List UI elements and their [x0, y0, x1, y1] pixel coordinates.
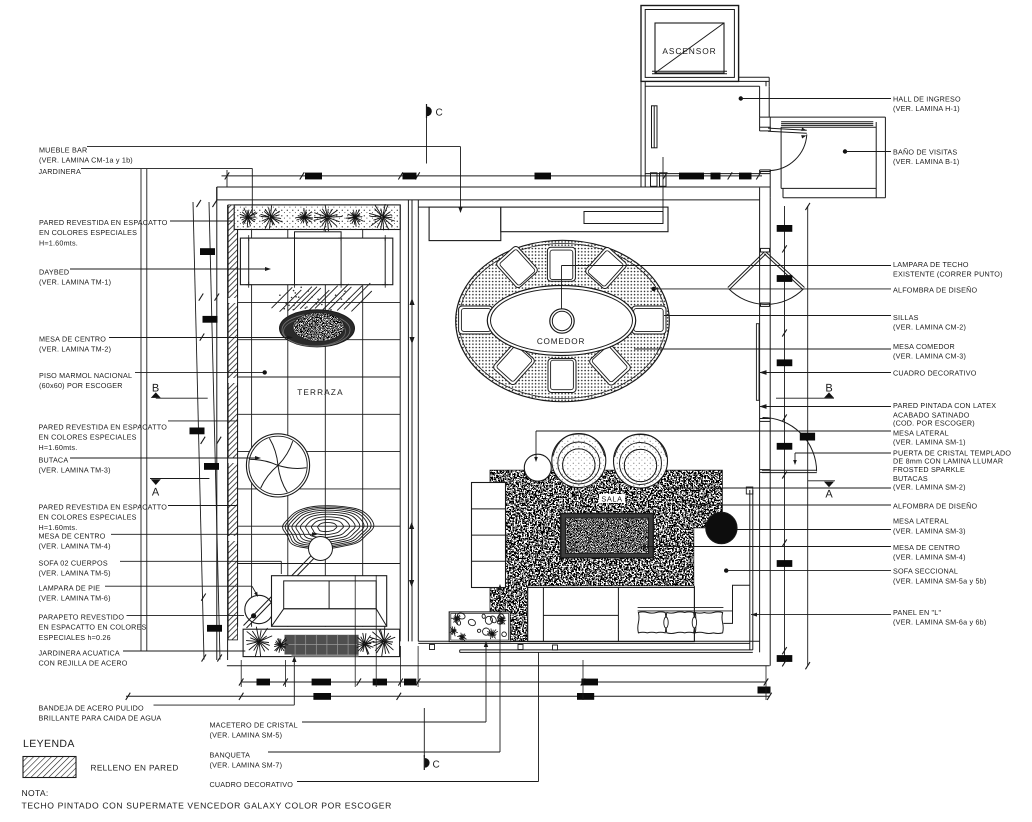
inner top wall line	[217, 199, 760, 201]
leader SILLAS	[664, 315, 891, 317]
lampara de techo point (center circle)	[550, 309, 574, 333]
svg-text:SILLAS: SILLAS	[893, 313, 919, 322]
svg-text:CUADRO DECORATIVO: CUADRO DECORATIVO	[210, 780, 294, 789]
leader PARED REVESTIDA 1	[170, 220, 233, 222]
svg-text:LAMPARA DE PIE: LAMPARA DE PIE	[39, 584, 101, 593]
svg-text:SOFA 02 CUERPOS: SOFA 02 CUERPOS	[39, 559, 108, 568]
wall corner joint top-left	[216, 187, 218, 200]
lampara de pie TM-6	[244, 537, 333, 629]
svg-text:DAYBED: DAYBED	[39, 268, 69, 277]
left dim chain value blocks	[190, 248, 223, 632]
right dim chain1 value blocks	[777, 225, 793, 662]
svg-text:(VER. LAMINA TM-5): (VER. LAMINA TM-5)	[39, 569, 111, 578]
leader BANQUETA	[268, 751, 500, 753]
svg-text:PARAPETO REVESTIDO: PARAPETO REVESTIDO	[39, 613, 125, 622]
shaft left wall lower	[640, 81, 642, 187]
banqueta SM-7	[472, 483, 506, 588]
outer boundary bottom line	[227, 665, 770, 667]
bottom dim corner block right	[758, 687, 771, 694]
bano outer top wall	[760, 116, 886, 118]
svg-text:LEYENDA: LEYENDA	[23, 738, 75, 750]
leader PARAPETO	[127, 614, 245, 616]
svg-text:(VER. LAMINA TM-6): (VER. LAMINA TM-6)	[39, 594, 111, 603]
bottom dim line1 value blocks	[257, 679, 599, 686]
outer boundary left line	[216, 187, 218, 660]
svg-text:(VER. LAMINA TM-4): (VER. LAMINA TM-4)	[39, 542, 111, 551]
sofa 02 cuerpos TM-5	[272, 576, 387, 627]
svg-text:(VER. LAMINA CM-1a y 1b): (VER. LAMINA CM-1a y 1b)	[39, 156, 133, 165]
section marker C bottom	[423, 755, 425, 770]
svg-text:(VER. LAMINA CM-3): (VER. LAMINA CM-3)	[893, 352, 966, 361]
mueble bar top edge line	[418, 206, 429, 208]
svg-text:MESA DE CENTRO: MESA DE CENTRO	[39, 335, 106, 344]
svg-text:COMEDOR: COMEDOR	[537, 337, 585, 346]
svg-text:RELLENO EN PARED: RELLENO EN PARED	[91, 764, 179, 773]
left dim chain line 1	[193, 202, 204, 660]
svg-text:(VER. LAMINA TM-1): (VER. LAMINA TM-1)	[39, 278, 111, 287]
bottom dim ticks line2	[126, 693, 772, 700]
hall bottom wall	[645, 173, 770, 175]
svg-text:LAMPARA DE TECHO: LAMPARA DE TECHO	[893, 260, 969, 269]
bano door leaf arrows	[801, 128, 806, 131]
svg-text:MESA COMEDOR: MESA COMEDOR	[893, 342, 955, 351]
svg-text:(COD. POR ESCOGER): (COD. POR ESCOGER)	[893, 419, 975, 428]
leader JARDINERA ACUATICA	[123, 650, 245, 652]
hall left wall door fixture	[652, 106, 658, 148]
pivot door swing arc	[729, 289, 804, 305]
bottom dim ticks line1	[239, 678, 768, 685]
svg-text:EN COLORES ESPECIALES: EN COLORES ESPECIALES	[39, 433, 137, 442]
elevator shaft outer wall	[641, 6, 739, 82]
hall right wall segments	[759, 117, 761, 131]
panel en L	[749, 490, 751, 650]
shade hatch over terrace table	[272, 283, 372, 312]
mueble bar left block	[429, 207, 501, 241]
svg-text:(VER. LAMINA TM-3): (VER. LAMINA TM-3)	[39, 466, 111, 475]
leader BANO	[843, 149, 847, 153]
svg-text:HALL DE INGRESO: HALL DE INGRESO	[893, 95, 961, 104]
elevator cab diagonal	[655, 23, 724, 73]
svg-text:(VER. LAMINA B-1): (VER. LAMINA B-1)	[893, 157, 960, 166]
hall right wall upper	[759, 86, 761, 117]
bottom dim line2 value blocks	[313, 693, 594, 700]
leader BUTACAS SM-2	[668, 487, 891, 489]
glass door leaf	[762, 469, 817, 471]
section marker C top line	[426, 118, 428, 164]
svg-text:PANEL EN "L": PANEL EN "L"	[893, 608, 941, 617]
leader SOFA 02 CUERPOS	[120, 560, 281, 562]
leader MESA COMEDOR	[634, 348, 891, 350]
svg-text:ASCENSOR: ASCENSOR	[662, 46, 716, 56]
leader PARED REVESTIDA 3	[168, 505, 237, 507]
bano door jamb top	[760, 126, 771, 128]
svg-text:CUADRO DECORATIVO: CUADRO DECORATIVO	[893, 368, 977, 377]
svg-text:MESA LATERAL: MESA LATERAL	[893, 428, 949, 437]
pivot door jamb upper	[761, 248, 770, 252]
left dim chain line 2	[209, 202, 220, 660]
section marker C bottom line	[423, 708, 425, 757]
leader MESA LATERAL SM-3	[737, 529, 891, 531]
svg-text:(VER. LAMINA SM-4): (VER. LAMINA SM-4)	[893, 552, 966, 561]
hall top wall	[645, 85, 759, 87]
text SALA	[599, 494, 625, 503]
bottom dim extension lines	[354, 575, 356, 687]
left dim chain top ticks	[196, 200, 217, 207]
svg-text:ESPECIALES h=0.26: ESPECIALES h=0.26	[39, 633, 111, 642]
svg-text:H=1.60mts.: H=1.60mts.	[39, 238, 78, 247]
svg-text:SOFA SECCIONAL: SOFA SECCIONAL	[893, 566, 958, 575]
pivot door leaf right	[766, 252, 804, 287]
leader PANEL EN L	[751, 613, 757, 617]
elevator shaft inner wall	[645, 10, 734, 78]
svg-text:(VER. LAMINA SM-5): (VER. LAMINA SM-5)	[210, 731, 283, 740]
leader MESA LATERAL SM-1	[536, 430, 891, 432]
leader PARED REVESTIDA 2	[168, 420, 237, 422]
svg-text:C: C	[433, 760, 440, 771]
daybed TM-1	[240, 232, 392, 288]
pivot door leaf left	[728, 252, 764, 287]
glass door swing arc	[763, 417, 817, 471]
svg-text:A: A	[152, 487, 160, 499]
bano door jamb bottom	[760, 169, 771, 171]
mesa lateral SM-3 dark circle	[706, 512, 743, 543]
svg-text:NOTA:: NOTA:	[22, 788, 49, 798]
svg-text:(VER. LAMINA SM-1): (VER. LAMINA SM-1)	[893, 438, 966, 447]
alfombra sala (noise rug)	[490, 470, 722, 641]
svg-text:H=1.60mts.: H=1.60mts.	[39, 443, 78, 452]
leader DAYBED	[70, 268, 268, 270]
pivot door jamb lower	[761, 303, 770, 306]
bano left wall	[780, 127, 782, 188]
bano right wall	[884, 117, 886, 198]
svg-text:SALA: SALA	[601, 495, 622, 504]
leader MESA DE CENTRO TM-2	[109, 337, 290, 339]
leader JARDINERA	[81, 167, 252, 169]
organic mesa TM-4	[283, 506, 374, 549]
shaft to hall step	[739, 76, 770, 78]
svg-text:(VER. LAMINA TM-2): (VER. LAMINA TM-2)	[39, 345, 111, 354]
right dim chain ticks	[782, 203, 810, 669]
leader BUTACA	[70, 457, 258, 459]
leader ALFOMBRA comedor	[652, 287, 656, 291]
glass door jamb lower	[760, 469, 771, 471]
svg-text:(VER. LAMINA SM-2): (VER. LAMINA SM-2)	[893, 483, 966, 492]
svg-text:C: C	[436, 108, 443, 119]
svg-text:ALFOMBRA DE DISEÑO: ALFOMBRA DE DISEÑO	[893, 285, 977, 294]
svg-text:FROSTED SPARKLE: FROSTED SPARKLE	[893, 465, 965, 474]
right dim chain line 1	[784, 206, 786, 663]
right dim chain line 2	[807, 206, 809, 666]
section marker A right	[808, 480, 835, 482]
svg-text:(VER. LAMINA SM-5a y 5b): (VER. LAMINA SM-5a y 5b)	[893, 576, 986, 585]
bano bottom wall	[781, 187, 876, 189]
section marker A left	[150, 478, 209, 480]
leader HALL	[739, 96, 743, 100]
svg-text:EXISTENTE (CORRER PUNTO): EXISTENTE (CORRER PUNTO)	[893, 269, 1003, 278]
svg-text:(VER. LAMINA H-1): (VER. LAMINA H-1)	[893, 104, 960, 113]
leader LAMPARA DE PIE	[105, 585, 252, 587]
butaca SM-2 right	[614, 434, 668, 488]
section marker C top	[426, 104, 428, 118]
mueble bar counter rect	[584, 212, 663, 224]
right wall outer line	[769, 198, 771, 666]
leader MUEBLE BAR	[87, 146, 461, 148]
outer boundary top line	[217, 186, 770, 188]
leader MESA DE CENTRO TM-4	[111, 533, 315, 535]
svg-text:(VER. LAMINA CM-2): (VER. LAMINA CM-2)	[893, 322, 966, 331]
svg-text:EN COLORES ESPECIALES: EN COLORES ESPECIALES	[39, 228, 137, 237]
terrace west wall outer line	[227, 205, 229, 660]
svg-text:EN COLORES ESPECIALES: EN COLORES ESPECIALES	[39, 513, 137, 522]
bano door leaf	[768, 128, 807, 130]
leader BANDEJA	[154, 704, 295, 706]
svg-text:MUEBLE BAR: MUEBLE BAR	[39, 146, 87, 155]
mesa lateral SM-1 circle	[524, 454, 551, 481]
svg-text:TECHO PINTADO CON SUPERMATE VE: TECHO PINTADO CON SUPERMATE VENCEDOR GAL…	[22, 801, 392, 811]
svg-text:JARDINERA: JARDINERA	[39, 167, 82, 176]
svg-text:MACETERO DE CRISTAL: MACETERO DE CRISTAL	[210, 721, 298, 730]
svg-text:TERRAZA: TERRAZA	[297, 388, 344, 397]
mesa comedor CM-3	[487, 286, 635, 356]
terrace west wall hatch	[228, 205, 237, 640]
svg-text:(60x60) POR ESCOGER: (60x60) POR ESCOGER	[39, 381, 123, 390]
top dimension line	[222, 175, 763, 177]
bano door swing arc	[770, 135, 807, 171]
svg-text:PARED REVESTIDA EN ESPACATTO: PARED REVESTIDA EN ESPACATTO	[39, 423, 168, 432]
bottom dimension line 2	[126, 695, 770, 697]
jardinera acuatica con rejilla	[243, 627, 400, 657]
svg-text:PARED REVESTIDA EN ESPACATTO: PARED REVESTIDA EN ESPACATTO	[39, 218, 168, 227]
leader CUADRO DECORATIVO right	[760, 370, 767, 375]
svg-text:JARDINERA ACUATICA: JARDINERA ACUATICA	[39, 649, 120, 658]
terrace east wall lines	[399, 205, 401, 642]
right wall bottom inner	[759, 642, 761, 653]
svg-text:(VER. LAMINA SM-3): (VER. LAMINA SM-3)	[893, 526, 966, 535]
alfombra comedor (dotted rug)	[456, 240, 670, 401]
svg-text:PARED REVESTIDA EN ESPACATTO: PARED REVESTIDA EN ESPACATTO	[39, 503, 168, 512]
sala bottom wall lines	[418, 640, 759, 642]
elevator cab door lines	[652, 70, 727, 72]
mesa de centro SM-4 (sala)	[561, 514, 654, 558]
terrace floor tile grid	[238, 230, 401, 627]
panel L bottom band	[460, 649, 753, 651]
svg-text:BANQUETA: BANQUETA	[210, 751, 251, 760]
leader SOFA SECCIONAL	[724, 568, 728, 572]
svg-text:A: A	[825, 489, 833, 501]
leader ALFOMBRA sala	[690, 504, 891, 506]
sliding door arrow lower	[411, 524, 413, 585]
left extension vertical lines	[140, 169, 142, 651]
bano window band	[781, 121, 873, 123]
cuadro decorativo wall rect	[756, 324, 759, 401]
right wall inner line	[759, 188, 761, 642]
elevator cab	[655, 23, 724, 73]
svg-text:BUTACA: BUTACA	[39, 456, 69, 465]
leader PISO MARMOL	[135, 371, 263, 373]
right dim chain2 value block	[800, 433, 815, 441]
svg-text:BANDEJA DE ACERO PULIDO: BANDEJA DE ACERO PULIDO	[39, 704, 144, 713]
mesa de centro TM-2 terrace	[280, 310, 355, 347]
svg-text:B: B	[152, 383, 159, 395]
hall bottom door jambs	[651, 173, 658, 187]
svg-text:ALFOMBRA DE DISEÑO: ALFOMBRA DE DISEÑO	[893, 501, 977, 510]
leader CUADRO DECORATIVO bottom	[297, 781, 539, 783]
top dimension value blocks	[305, 173, 752, 180]
butaca TM-3 round chair	[246, 434, 309, 497]
jardinera planter (top) with plants	[234, 204, 400, 230]
bottom dimension line 1	[241, 681, 767, 683]
leader MESA DE CENTRO SM-4	[643, 546, 891, 548]
sofa seccional SM-5	[528, 585, 750, 641]
top dim extension line at hall	[662, 157, 664, 219]
macetero de cristal SM-5	[449, 612, 510, 642]
sliding door arrow upper	[411, 300, 413, 342]
svg-text:PARED PINTADA CON LATEX: PARED PINTADA CON LATEX	[893, 401, 996, 410]
svg-text:PISO MARMOL NACIONAL: PISO MARMOL NACIONAL	[39, 371, 132, 380]
glass door jamb upper	[760, 418, 771, 420]
left dim chain mid ticks	[199, 294, 222, 662]
leader MACETERO	[302, 721, 486, 723]
svg-text:(VER. LAMINA SM-7): (VER. LAMINA SM-7)	[210, 761, 283, 770]
mueble bar right block	[501, 207, 668, 232]
svg-text:MESA DE CENTRO: MESA DE CENTRO	[893, 543, 960, 552]
top dim extension at left corner	[226, 170, 228, 187]
svg-text:BRILLANTE PARA CAIDA DE AGUA: BRILLANTE PARA CAIDA DE AGUA	[39, 714, 162, 723]
top dimension ticks	[225, 172, 761, 179]
wall hook marks	[430, 645, 435, 650]
leader LAMPARA DE TECHO	[561, 266, 563, 310]
svg-text:BAÑO DE VISITAS: BAÑO DE VISITAS	[893, 148, 957, 157]
sillas comedor (8 chairs)	[459, 245, 666, 393]
svg-text:MESA LATERAL: MESA LATERAL	[893, 517, 949, 526]
svg-text:MESA DE CENTRO: MESA DE CENTRO	[39, 532, 106, 541]
butaca SM-2 left	[552, 434, 606, 488]
terrace west wall inner line	[237, 230, 239, 627]
svg-text:(VER. LAMINA SM-6a y 6b): (VER. LAMINA SM-6a y 6b)	[893, 618, 986, 627]
bano wall below door	[769, 171, 771, 198]
legend hatch box RELLENO	[23, 757, 76, 778]
svg-text:EN ESPACATTO EN COLORES: EN ESPACATTO EN COLORES	[39, 623, 147, 632]
leader PARED PINTADA	[760, 404, 767, 409]
leader PUERTA DE CRISTAL	[795, 452, 891, 454]
right dim bottom ticks	[782, 659, 787, 666]
svg-text:CON REJILLA DE ACERO: CON REJILLA DE ACERO	[39, 659, 128, 668]
